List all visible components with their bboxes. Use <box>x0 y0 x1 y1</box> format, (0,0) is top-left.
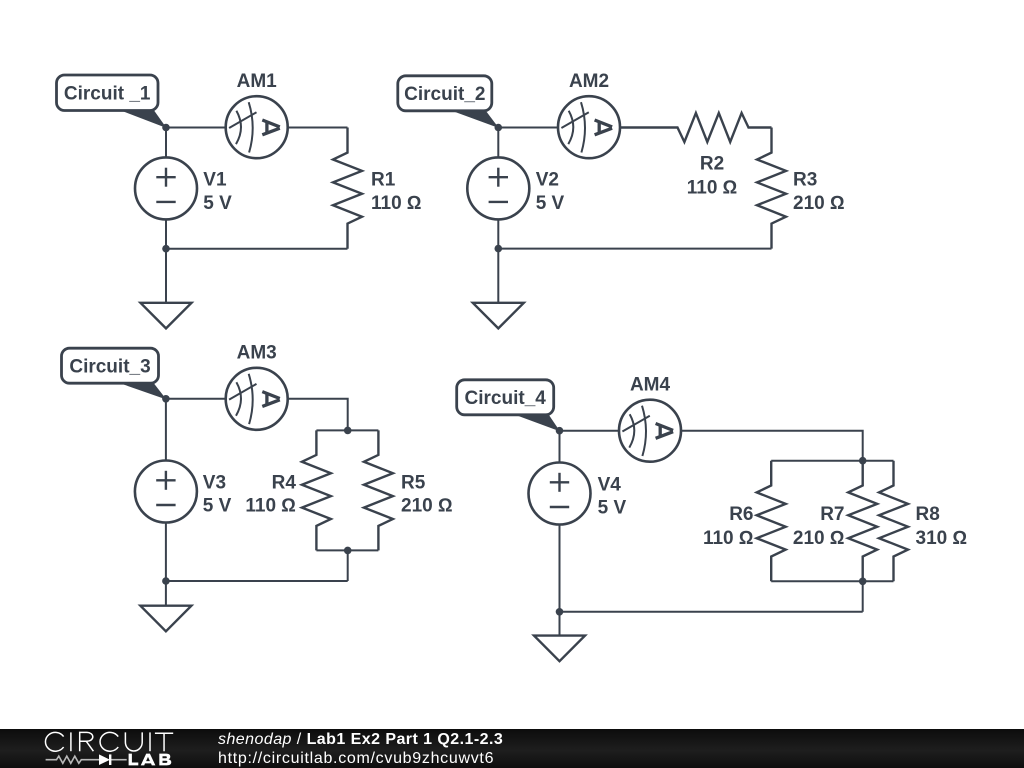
net label Circuit_2 <box>398 76 499 128</box>
svg-text:R2: R2 <box>700 154 724 175</box>
svg-text:R1: R1 <box>371 169 396 190</box>
resistor R7 <box>848 461 877 582</box>
junction dot circuit 2 bottom <box>495 245 503 253</box>
svg-text:210 Ω: 210 Ω <box>401 495 453 516</box>
logo diode <box>99 754 110 765</box>
ammeter AM2 <box>558 96 620 158</box>
svg-text:5 V: 5 V <box>203 495 232 516</box>
junction dot parallel bottom circuit 4 <box>859 578 867 586</box>
junction dot parallel top <box>344 427 352 435</box>
svg-text:5 V: 5 V <box>536 193 565 214</box>
top rail of R6 R7 R8 <box>771 460 893 462</box>
svg-text:AM4: AM4 <box>630 375 671 396</box>
bottom wire circuit 4 <box>560 611 863 613</box>
svg-text:R8: R8 <box>916 504 940 525</box>
logo resistor squiggle <box>46 756 127 763</box>
svg-text:AM1: AM1 <box>237 71 278 92</box>
junction dot circuit 3 bottom <box>162 577 170 585</box>
wire ammeter to R1 <box>288 127 348 129</box>
resistor R4 <box>302 430 331 550</box>
node junction dot circuit 2 top <box>495 124 503 132</box>
svg-text:AM2: AM2 <box>569 71 609 92</box>
svg-text:110 Ω: 110 Ω <box>703 528 754 549</box>
junction dot circuit 4 bottom <box>556 608 564 616</box>
svg-text:R5: R5 <box>401 473 426 494</box>
bottom rail of R6 R7 R8 <box>771 580 893 582</box>
logo word LAB (drawn letters) <box>129 754 172 766</box>
bottom rail of R4 R5 <box>316 549 378 551</box>
node junction dot circuit 3 top <box>162 395 170 403</box>
svg-text:V1: V1 <box>203 169 227 190</box>
resistor R6 <box>757 461 786 582</box>
svg-text:210 Ω: 210 Ω <box>793 193 845 214</box>
wire rail to bottom wire circuit 4 <box>862 581 864 612</box>
resistor R1 <box>333 128 362 249</box>
ground circuit 2 <box>473 249 524 329</box>
CircuitLab logo <box>0 729 200 768</box>
svg-text:310 Ω: 310 Ω <box>916 528 968 549</box>
svg-text:V4: V4 <box>598 475 622 496</box>
bottom wire circuit 1 <box>166 248 348 250</box>
svg-text:Circuit _1: Circuit _1 <box>64 84 151 105</box>
logo word CIRCUIT (drawn letters) <box>45 732 173 751</box>
net label Circuit_4 <box>457 380 560 432</box>
voltage source V3 <box>135 399 197 581</box>
wire node to ammeter AM2 <box>498 127 559 129</box>
junction dot parallel bottom <box>344 547 352 555</box>
top rail of R4 R5 <box>316 429 378 431</box>
svg-text:R7: R7 <box>820 504 844 525</box>
voltage source V4 <box>529 431 591 612</box>
ground circuit 4 <box>534 612 585 661</box>
net label Circuit _1 <box>57 75 167 128</box>
svg-text:5 V: 5 V <box>203 193 232 214</box>
voltage source V2 <box>467 128 529 249</box>
wire ammeter to corner, down to parallel rail <box>288 399 348 431</box>
svg-text:110 Ω: 110 Ω <box>687 178 738 199</box>
junction dot circuit 1 bottom <box>162 245 170 253</box>
footer title text <box>218 730 503 768</box>
bottom wire circuit 2 <box>498 248 771 250</box>
wire node to ammeter AM1 <box>166 127 227 129</box>
svg-text:110 Ω: 110 Ω <box>245 495 296 516</box>
ammeter AM4 <box>619 400 681 462</box>
wire ammeter to corner, down to parallel rail <box>681 431 863 461</box>
svg-text:V3: V3 <box>203 473 226 494</box>
resistor R5 <box>364 430 393 550</box>
svg-text:R3: R3 <box>793 169 817 190</box>
bottom wire circuit 3 <box>166 580 348 582</box>
node junction dot circuit 4 top <box>556 427 564 435</box>
wire node to ammeter AM3 <box>166 398 227 400</box>
node junction dot circuit 1 top <box>162 124 170 132</box>
ground circuit 3 <box>140 581 191 631</box>
svg-text:5 V: 5 V <box>598 498 627 519</box>
junction dot parallel top circuit 4 <box>859 457 867 465</box>
voltage source V1 <box>135 128 197 249</box>
wire node to ammeter AM4 <box>560 430 620 432</box>
resistor R8 <box>879 461 908 582</box>
resistor R3 <box>757 128 786 249</box>
wire rail to bottom wire <box>347 550 349 581</box>
ammeter AM1 <box>226 96 288 158</box>
ground circuit 1 <box>141 249 192 329</box>
svg-text:R4: R4 <box>272 473 297 494</box>
svg-text:110 Ω: 110 Ω <box>371 193 422 214</box>
svg-text:V2: V2 <box>536 169 559 190</box>
svg-text:Circuit_2: Circuit_2 <box>404 84 485 105</box>
svg-text:AM3: AM3 <box>237 343 277 364</box>
svg-text:Circuit_3: Circuit_3 <box>69 357 150 378</box>
footer bar <box>0 729 1024 768</box>
svg-text:R6: R6 <box>729 504 753 525</box>
svg-text:210 Ω: 210 Ω <box>793 528 845 549</box>
resistor R2 (horizontal) <box>620 113 772 142</box>
ammeter AM3 <box>226 368 288 430</box>
svg-text:Circuit_4: Circuit_4 <box>465 388 547 409</box>
net label Circuit_3 <box>62 348 167 399</box>
